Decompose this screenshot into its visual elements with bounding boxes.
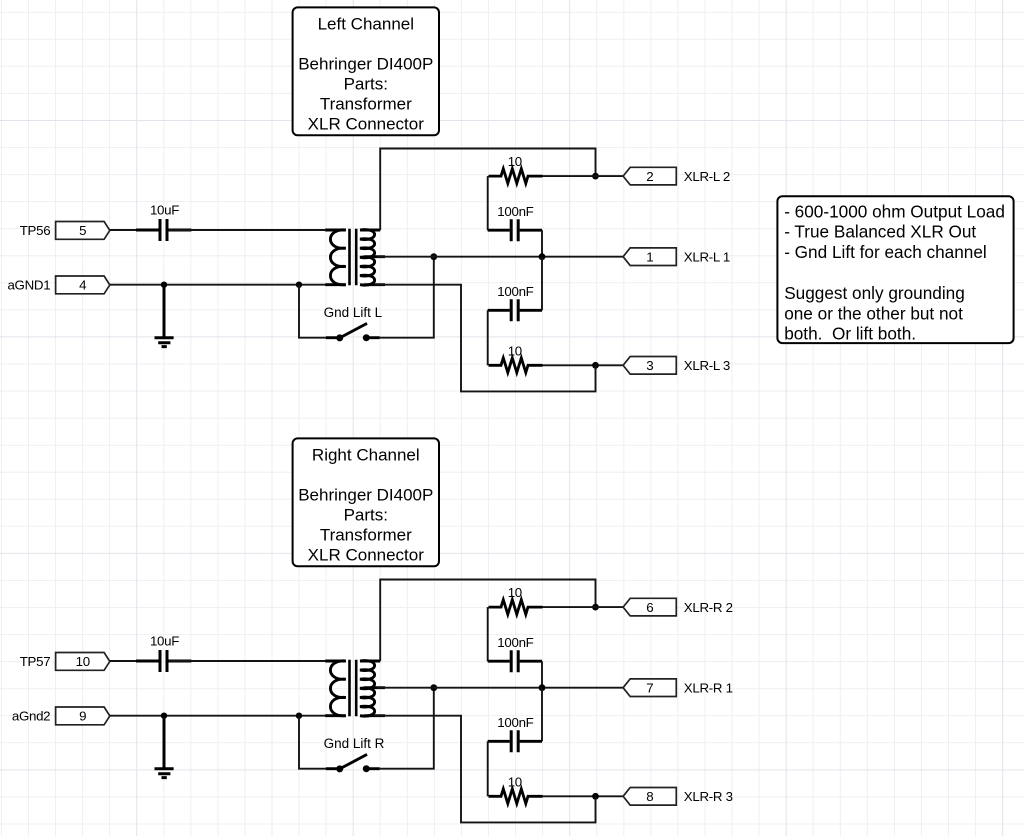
svg-text:100nF: 100nF bbox=[497, 715, 533, 730]
svg-text:4: 4 bbox=[79, 278, 86, 293]
output terminal XLR pin 2 bbox=[623, 167, 676, 185]
junction pin 3 node bbox=[592, 362, 599, 369]
wire resistor to pin 2 terminal bbox=[543, 175, 624, 177]
output terminal XLR pin 8 bbox=[623, 788, 676, 806]
wire aGND1 to transformer primary bottom bbox=[110, 284, 325, 286]
junction pin 2 node bbox=[592, 173, 599, 180]
svg-text:Suggest only grounding: Suggest only grounding bbox=[784, 283, 965, 303]
svg-text:Transformer: Transformer bbox=[320, 526, 412, 545]
svg-text:Parts:: Parts: bbox=[344, 75, 388, 94]
svg-text:9: 9 bbox=[79, 709, 86, 724]
capacitor 100nF upper bbox=[488, 650, 542, 672]
input terminal pin 10 (TP57) bbox=[56, 653, 110, 671]
svg-text:10: 10 bbox=[508, 343, 522, 358]
output terminal XLR pin 7 bbox=[623, 679, 676, 697]
svg-text:Gnd Lift R: Gnd Lift R bbox=[324, 736, 385, 751]
svg-text:Behringer DI400P: Behringer DI400P bbox=[298, 486, 433, 505]
wire resistor-top left branch down to 100nF bbox=[487, 607, 489, 661]
right channel title box bbox=[293, 438, 439, 566]
svg-text:XLR-R 2: XLR-R 2 bbox=[684, 600, 733, 615]
svg-text:100nF: 100nF bbox=[497, 635, 533, 650]
resistor 10 (pin 2 series) bbox=[489, 169, 543, 184]
output terminal XLR pin 3 bbox=[623, 357, 676, 375]
input terminal pin 9 (aGnd2) bbox=[56, 707, 110, 725]
svg-text:- Gnd Lift for each channel: - Gnd Lift for each channel bbox=[784, 242, 987, 262]
svg-text:6: 6 bbox=[646, 600, 653, 615]
left channel title box bbox=[293, 7, 439, 135]
svg-text:10uF: 10uF bbox=[150, 634, 179, 649]
junction switch / center tap bbox=[430, 253, 437, 260]
output terminal XLR pin 6 bbox=[623, 598, 676, 616]
switch Gnd Lift R (gnd lift) bbox=[326, 754, 380, 772]
svg-text:XLR Connector: XLR Connector bbox=[308, 115, 425, 134]
junction pin 2 node bbox=[592, 604, 599, 611]
notes box bbox=[777, 196, 1013, 344]
wire secondary top to pin 2 node bbox=[380, 580, 595, 662]
svg-text:10: 10 bbox=[508, 774, 522, 789]
wire TP57 to coupling cap bbox=[110, 660, 158, 662]
svg-text:Right Channel: Right Channel bbox=[312, 446, 420, 465]
svg-text:Transformer: Transformer bbox=[320, 95, 412, 114]
wire center tap to pin 1 terminal bbox=[377, 687, 623, 689]
svg-text:both. Or lift both.: both. Or lift both. bbox=[784, 324, 916, 344]
wire 100nF lower to resistor-bottom bbox=[487, 310, 489, 365]
junction center node bbox=[539, 253, 546, 260]
resistor 10 (pin 3 series) bbox=[489, 358, 543, 373]
junction at ground symbol tap bbox=[161, 282, 167, 288]
svg-text:XLR-L 2: XLR-L 2 bbox=[684, 169, 730, 184]
svg-text:7: 7 bbox=[646, 680, 653, 695]
input terminal pin 5 (TP56) bbox=[56, 222, 110, 240]
svg-text:aGnd2: aGnd2 bbox=[12, 709, 50, 724]
svg-text:TP57: TP57 bbox=[20, 654, 51, 669]
resistor 10 (pin 2 series) bbox=[489, 600, 543, 615]
capacitor 100nF lower bbox=[488, 299, 542, 321]
svg-text:- 600-1000 ohm Output Load: - 600-1000 ohm Output Load bbox=[784, 201, 1005, 221]
wire secondary top to pin 2 node bbox=[380, 149, 595, 231]
svg-text:XLR Connector: XLR Connector bbox=[308, 546, 425, 565]
svg-text:100nF: 100nF bbox=[497, 204, 533, 219]
switch Gnd Lift L (gnd lift) bbox=[326, 323, 380, 341]
wire resistor to pin 3 terminal bbox=[543, 795, 624, 797]
junction at gnd-lift tap bbox=[296, 282, 302, 288]
svg-text:3: 3 bbox=[646, 358, 653, 373]
wire switch to secondary center tap bbox=[380, 688, 434, 769]
wire resistor to pin 3 terminal bbox=[543, 364, 624, 366]
wire secondary bottom to pin 3 node bbox=[374, 716, 596, 823]
resistor 10 (pin 3 series) bbox=[489, 789, 543, 804]
wire center node to 100nF lower bbox=[541, 257, 543, 311]
svg-text:10uF: 10uF bbox=[150, 203, 179, 218]
wire switch to secondary center tap bbox=[380, 257, 434, 338]
wire secondary bottom to pin 3 node bbox=[374, 285, 596, 392]
wire TP56 to coupling cap bbox=[110, 229, 158, 231]
capacitor 10uF coupling bbox=[136, 219, 191, 241]
junction center node bbox=[539, 684, 546, 691]
svg-text:aGND1: aGND1 bbox=[7, 278, 50, 293]
capacitor 100nF upper bbox=[488, 219, 542, 241]
transformer right bbox=[325, 660, 385, 716]
wire resistor-top left branch down to 100nF bbox=[487, 176, 489, 230]
transformer left bbox=[325, 229, 385, 285]
capacitor 100nF lower bbox=[488, 730, 542, 752]
ground symbol bbox=[155, 716, 174, 778]
svg-text:XLR-L 3: XLR-L 3 bbox=[684, 358, 730, 373]
wire gnd-lift left branch bbox=[299, 285, 326, 338]
svg-text:2: 2 bbox=[646, 169, 653, 184]
svg-text:XLR-R 1: XLR-R 1 bbox=[684, 681, 733, 696]
wire 100nF upper to center node bbox=[541, 661, 543, 688]
svg-text:Parts:: Parts: bbox=[344, 506, 388, 525]
svg-text:10: 10 bbox=[508, 585, 522, 600]
wire 100nF upper to center node bbox=[541, 230, 543, 257]
ground symbol bbox=[155, 285, 174, 347]
input terminal pin 4 (aGND1) bbox=[56, 276, 110, 294]
junction pin 3 node bbox=[592, 793, 599, 800]
wire cap to transformer primary top bbox=[169, 660, 325, 662]
svg-text:one or the other but not: one or the other but not bbox=[784, 303, 963, 323]
junction at ground symbol tap bbox=[161, 713, 167, 719]
svg-text:TP56: TP56 bbox=[20, 223, 51, 238]
wire center tap to pin 1 terminal bbox=[377, 256, 623, 258]
output terminal XLR pin 1 bbox=[623, 248, 676, 266]
svg-text:XLR-R 3: XLR-R 3 bbox=[684, 789, 733, 804]
wire gnd-lift left branch bbox=[299, 716, 326, 769]
wire center node to 100nF lower bbox=[541, 688, 543, 742]
junction at gnd-lift tap bbox=[296, 713, 302, 719]
svg-text:Behringer DI400P: Behringer DI400P bbox=[298, 55, 433, 74]
svg-text:5: 5 bbox=[79, 223, 86, 238]
wire cap to transformer primary top bbox=[169, 229, 325, 231]
capacitor 10uF coupling bbox=[136, 650, 191, 672]
junction switch / center tap bbox=[430, 684, 437, 691]
svg-text:100nF: 100nF bbox=[497, 284, 533, 299]
svg-text:XLR-L 1: XLR-L 1 bbox=[684, 250, 730, 265]
svg-text:8: 8 bbox=[646, 789, 653, 804]
svg-text:Left Channel: Left Channel bbox=[318, 15, 414, 34]
svg-text:Gnd Lift L: Gnd Lift L bbox=[324, 305, 383, 320]
svg-text:10: 10 bbox=[76, 654, 90, 669]
wire aGnd2 to transformer primary bottom bbox=[110, 715, 325, 717]
wire 100nF lower to resistor-bottom bbox=[487, 741, 489, 796]
wire resistor to pin 2 terminal bbox=[543, 606, 624, 608]
svg-text:10: 10 bbox=[508, 154, 522, 169]
svg-text:- True Balanced XLR Out: - True Balanced XLR Out bbox=[784, 222, 976, 242]
svg-text:1: 1 bbox=[646, 249, 653, 264]
